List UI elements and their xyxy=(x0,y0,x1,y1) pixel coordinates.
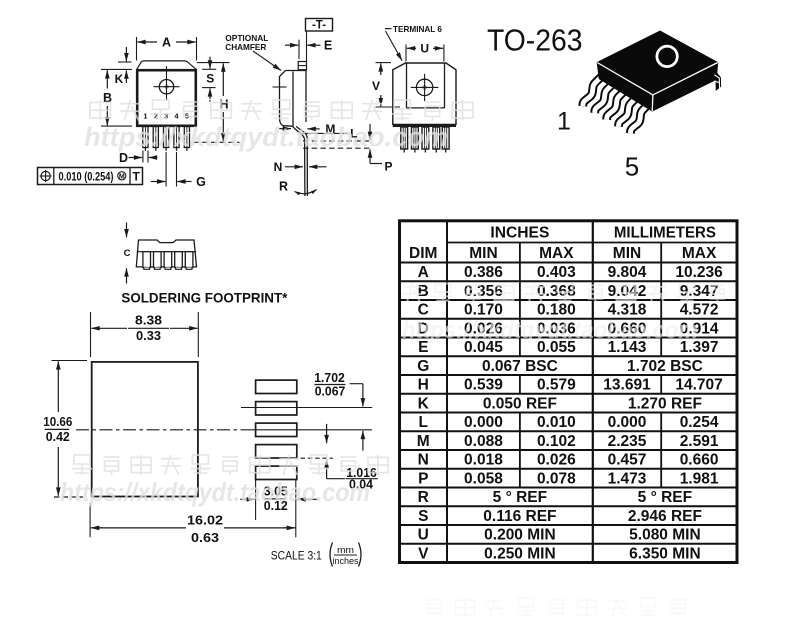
svg-text:1: 1 xyxy=(143,112,147,121)
svg-text:8.38: 8.38 xyxy=(135,314,162,328)
dim N xyxy=(274,160,327,174)
svg-text:0.386: 0.386 xyxy=(464,264,503,281)
front view pin numbers 1-5 xyxy=(143,112,189,121)
svg-text:0.010 (0.254): 0.010 (0.254) xyxy=(59,171,114,183)
svg-text:0.457: 0.457 xyxy=(608,452,647,469)
dim G xyxy=(151,152,206,189)
svg-text:0.058: 0.058 xyxy=(464,470,503,487)
footprint tab pad xyxy=(92,362,198,497)
svg-text:K: K xyxy=(418,395,430,412)
svg-text:0.250 MIN: 0.250 MIN xyxy=(484,545,556,562)
front view pins xyxy=(143,127,190,151)
svg-text:0.579: 0.579 xyxy=(537,377,576,394)
svg-text:V: V xyxy=(418,545,429,562)
svg-text:0.000: 0.000 xyxy=(464,414,503,431)
table row A xyxy=(418,264,724,281)
footprint dim 3.05/0.12 xyxy=(240,480,317,521)
3d package leads xyxy=(583,77,649,133)
svg-text:9.804: 9.804 xyxy=(608,264,647,281)
datum T flag xyxy=(306,19,333,32)
seating plane dashed line xyxy=(194,141,240,143)
title TO-263 xyxy=(487,22,583,57)
svg-text:MIN: MIN xyxy=(469,245,497,262)
svg-text:14.707: 14.707 xyxy=(675,377,722,394)
centerline xyxy=(76,429,372,431)
svg-text:SOLDERING FOOTPRINT*: SOLDERING FOOTPRINT* xyxy=(121,290,288,306)
svg-text:2.591: 2.591 xyxy=(680,433,719,450)
watermark band 2 xyxy=(402,284,725,345)
table row U xyxy=(418,527,701,544)
front view dim A xyxy=(137,36,197,61)
svg-text:D: D xyxy=(119,151,128,165)
footprint dim 8.38/0.33 xyxy=(91,312,199,357)
table row D xyxy=(418,320,719,337)
table row C xyxy=(418,302,719,319)
svg-text:inches: inches xyxy=(333,556,359,567)
svg-text:5 ° REF: 5 ° REF xyxy=(638,489,692,506)
svg-text:2.946 REF: 2.946 REF xyxy=(628,508,702,525)
watermark band 3 xyxy=(60,455,388,507)
svg-text:H: H xyxy=(418,377,429,394)
svg-text:U: U xyxy=(420,42,429,56)
watermark band 4 (faint, below table) xyxy=(427,598,686,617)
svg-text:10.236: 10.236 xyxy=(675,264,723,281)
svg-text:0.33: 0.33 xyxy=(136,329,161,343)
back view pins xyxy=(401,127,449,153)
lead plane dashed lines xyxy=(303,141,372,148)
svg-text:0.539: 0.539 xyxy=(464,377,503,394)
pad2 centerline xyxy=(241,407,372,409)
dimension table grid xyxy=(400,221,738,563)
datum line T xyxy=(306,31,308,62)
footprint dim 10.66/0.42 xyxy=(43,361,87,498)
svg-text:16.02: 16.02 xyxy=(187,513,223,528)
svg-text:0.050 REF: 0.050 REF xyxy=(483,395,557,412)
table row S xyxy=(418,508,702,525)
soldering footprint heading xyxy=(121,290,288,306)
svg-text:TERMINAL 6: TERMINAL 6 xyxy=(393,24,442,34)
svg-text:6.350 MIN: 6.350 MIN xyxy=(629,545,701,562)
svg-text:SCALE 3:1: SCALE 3:1 xyxy=(271,551,322,563)
svg-text:0.660: 0.660 xyxy=(680,452,719,469)
svg-text:S: S xyxy=(418,508,428,525)
svg-text:TO-263: TO-263 xyxy=(487,22,583,57)
table row B xyxy=(418,283,719,300)
svg-text:G: G xyxy=(196,175,206,189)
3d pin 5 label xyxy=(625,152,639,182)
svg-text:MAX: MAX xyxy=(682,245,717,262)
front view mounting hole crosshair xyxy=(154,66,180,101)
svg-text:5 ° REF: 5 ° REF xyxy=(493,489,547,506)
svg-text:1.702 BSC: 1.702 BSC xyxy=(627,358,703,375)
dim U xyxy=(406,42,444,62)
side view body xyxy=(273,71,307,127)
optional chamfer label xyxy=(225,33,281,71)
dim K xyxy=(115,47,132,86)
table row K xyxy=(418,395,702,412)
footprint pads xyxy=(256,380,297,479)
svg-text:DIM: DIM xyxy=(409,245,437,262)
svg-text:https://xkdtqydt.taobao.com: https://xkdtqydt.taobao.com xyxy=(402,317,698,344)
svg-text:1.473: 1.473 xyxy=(608,470,647,487)
svg-text:0.010: 0.010 xyxy=(537,414,576,431)
svg-text:0.067: 0.067 xyxy=(315,385,346,399)
front view tab (trapezoid) xyxy=(137,61,196,69)
table row H xyxy=(418,377,723,394)
svg-text:MAX: MAX xyxy=(539,245,574,262)
svg-text:L: L xyxy=(419,414,428,431)
svg-text:mm: mm xyxy=(337,545,354,556)
dim D xyxy=(119,151,158,165)
svg-text:0.026: 0.026 xyxy=(537,452,576,469)
svg-text:G: G xyxy=(417,358,429,375)
table row G xyxy=(417,358,703,375)
dim S xyxy=(197,57,230,103)
svg-text:M: M xyxy=(417,433,430,450)
svg-text:1.702: 1.702 xyxy=(314,371,345,385)
svg-text:B: B xyxy=(418,283,429,300)
svg-text:1.270 REF: 1.270 REF xyxy=(628,395,702,412)
svg-text:1: 1 xyxy=(557,108,571,136)
C view package profile xyxy=(136,240,196,267)
watermark band 1 xyxy=(84,100,473,152)
footprint dim 1.702/0.067 xyxy=(314,371,363,451)
svg-text:MIN: MIN xyxy=(613,245,641,262)
svg-text:K: K xyxy=(115,72,124,86)
3d package body xyxy=(597,31,720,111)
svg-text:0.63: 0.63 xyxy=(191,530,219,545)
svg-text:0.102: 0.102 xyxy=(537,433,576,450)
svg-text:https://xkdtqydt.taobao.com: https://xkdtqydt.taobao.com xyxy=(84,122,448,152)
svg-text:5: 5 xyxy=(625,152,639,182)
dim C xyxy=(124,223,131,284)
scale note xyxy=(271,543,361,568)
svg-text:0.000: 0.000 xyxy=(608,414,647,431)
terminal 6 label xyxy=(385,24,442,61)
svg-text:5.080 MIN: 5.080 MIN xyxy=(629,527,701,544)
svg-text:0.403: 0.403 xyxy=(537,264,576,281)
3d pin 1 label xyxy=(557,108,571,136)
svg-text:INCHES: INCHES xyxy=(490,224,549,241)
footprint dim 1.016/0.04 xyxy=(301,424,378,492)
dim M xyxy=(279,122,335,136)
svg-text:0.018: 0.018 xyxy=(464,452,503,469)
dim P xyxy=(370,149,393,173)
svg-text:T: T xyxy=(133,170,141,184)
svg-text:0.067 BSC: 0.067 BSC xyxy=(482,358,558,375)
svg-text:1.981: 1.981 xyxy=(680,470,719,487)
table headers xyxy=(409,224,717,262)
svg-text:4: 4 xyxy=(174,112,179,121)
table row V xyxy=(418,545,701,562)
table row P xyxy=(418,470,719,487)
table row N xyxy=(418,452,719,469)
table row R xyxy=(418,489,692,506)
svg-text:M: M xyxy=(119,174,125,181)
svg-text:N: N xyxy=(418,452,429,469)
svg-text:0.200 MIN: 0.200 MIN xyxy=(484,527,556,544)
side view tab xyxy=(298,62,306,70)
C view leads xyxy=(143,252,193,270)
svg-text:N: N xyxy=(274,160,283,174)
svg-text:2.235: 2.235 xyxy=(608,433,647,450)
svg-text:P: P xyxy=(384,159,392,173)
svg-text:U: U xyxy=(418,527,429,544)
table row L xyxy=(419,414,719,431)
svg-text:10.66: 10.66 xyxy=(43,415,72,429)
back view crosshair xyxy=(411,74,439,101)
svg-text:MILLIMETERS: MILLIMETERS xyxy=(614,224,716,241)
datum feature control frame xyxy=(38,168,143,185)
svg-text:A: A xyxy=(162,36,171,50)
dim H xyxy=(219,63,228,141)
side view lead xyxy=(293,126,308,196)
svg-text:R: R xyxy=(418,489,429,506)
svg-text:S: S xyxy=(206,72,214,86)
table row M xyxy=(417,433,719,450)
svg-text:0.078: 0.078 xyxy=(537,470,576,487)
svg-text:E: E xyxy=(324,39,332,53)
svg-text:C: C xyxy=(124,248,131,259)
svg-text:P: P xyxy=(418,470,428,487)
dim B xyxy=(101,69,132,126)
svg-text:R: R xyxy=(279,180,288,194)
table row E xyxy=(418,339,718,356)
dim V xyxy=(372,63,400,107)
dim R (lead angle) xyxy=(279,180,317,194)
front view body xyxy=(137,70,196,126)
svg-text:https://xkdtqydt.taobao.com: https://xkdtqydt.taobao.com xyxy=(60,477,370,507)
svg-text:13.691: 13.691 xyxy=(603,377,651,394)
footprint dim 16.02/0.63 xyxy=(90,480,296,545)
svg-text:0.254: 0.254 xyxy=(680,414,719,431)
dim L xyxy=(302,124,370,141)
svg-text:CHAMFER: CHAMFER xyxy=(225,42,266,52)
back view body xyxy=(393,63,456,127)
svg-text:V: V xyxy=(372,79,380,93)
svg-text:0.088: 0.088 xyxy=(464,433,503,450)
svg-text:A: A xyxy=(418,264,429,281)
svg-text:-T-: -T- xyxy=(312,19,326,31)
svg-text:0.42: 0.42 xyxy=(46,430,70,444)
dim E xyxy=(285,39,332,60)
svg-text:0.116 REF: 0.116 REF xyxy=(483,508,556,525)
